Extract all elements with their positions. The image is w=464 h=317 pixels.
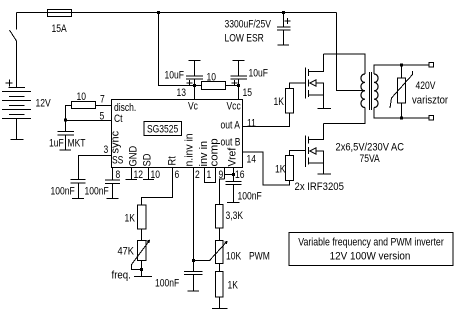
svg-text:1uF: 1uF [49, 138, 64, 150]
svg-text:10uF: 10uF [165, 70, 184, 82]
svg-text:sync: sync [110, 130, 122, 153]
node varistor top [400, 64, 403, 67]
svg-text:out B: out B [221, 137, 241, 149]
wire pin 7 [96, 105, 112, 107]
svg-text:8: 8 [116, 169, 121, 181]
svg-text:2x6,5V/230V AC: 2x6,5V/230V AC [336, 142, 404, 154]
wire 1K to 47K [141, 229, 143, 241]
svg-text:Vc: Vc [188, 101, 198, 113]
battery plus sign [6, 80, 13, 87]
svg-text:freq.: freq. [112, 270, 131, 282]
capacitor C 100nF (sync) [71, 180, 86, 199]
wire pin 1 to pin 9 loop [205, 168, 216, 183]
svg-text:9: 9 [219, 169, 224, 181]
resistor 1K (gate A) [286, 89, 294, 114]
resistor 1K (freq) [138, 205, 147, 229]
wire pin 6 Rt [142, 168, 173, 206]
node top rail to 3300uF [282, 11, 285, 14]
transistor Q2 IRF3205 bottom [305, 136, 307, 168]
svg-text:1K: 1K [274, 96, 285, 108]
svg-text:11: 11 [247, 118, 256, 130]
svg-text:n.inv in: n.inv in [183, 133, 195, 166]
wire pin 11 out A [243, 113, 290, 127]
svg-text:SD: SD [142, 154, 154, 167]
svg-text:Rt: Rt [167, 156, 179, 165]
battery BT1 12V [9, 87, 26, 89]
svg-text:100nF: 100nF [51, 186, 75, 198]
svg-text:MKT: MKT [68, 138, 86, 150]
svg-text:SS: SS [112, 155, 124, 167]
capacitor C 10uF left [186, 61, 203, 86]
capacitor C 100nF (pin2) [184, 272, 203, 292]
wire pin 5 and Ct node [66, 106, 112, 132]
SG3525 label box [144, 122, 182, 136]
wire pin 14 out B [243, 152, 290, 185]
IC U1 SG3525 body [112, 100, 243, 168]
svg-text:100nF: 100nF [85, 186, 109, 198]
info box [289, 233, 453, 266]
svg-text:Vref: Vref [226, 148, 238, 167]
capacitor C 100nF (Vref) [226, 182, 242, 203]
wire secondary top [374, 65, 429, 74]
ground pin 10 stub [143, 168, 154, 180]
svg-text:GND: GND [128, 146, 140, 167]
svg-text:100nF: 100nF [155, 278, 179, 290]
svg-text:2x IRF3205: 2x IRF3205 [295, 181, 345, 193]
terminal output bottom [429, 116, 434, 121]
svg-text:3,3K: 3,3K [226, 210, 244, 222]
svg-text:12V: 12V [36, 98, 52, 110]
svg-text:1K: 1K [275, 164, 286, 176]
wire 1K to gate A [290, 83, 306, 89]
transformer T1 primary winding [361, 74, 365, 108]
svg-text:13: 13 [177, 87, 187, 99]
svg-text:2: 2 [195, 169, 200, 181]
svg-text:12V 100W version: 12V 100W version [330, 251, 411, 263]
wire top rail [17, 12, 337, 14]
svg-text:PWM: PWM [249, 251, 270, 263]
svg-text:6: 6 [175, 169, 180, 181]
wire pin 3 sync [79, 156, 112, 180]
wire drain B to transformer bottom [324, 108, 366, 124]
capacitor C 10uF right [231, 61, 248, 86]
svg-text:16: 16 [235, 169, 245, 181]
pot 10K arrow [210, 241, 228, 261]
svg-text:75VA: 75VA [360, 153, 381, 165]
svg-text:LOW ESR: LOW ESR [225, 33, 264, 45]
switch S1 [16, 13, 18, 88]
transformer core [370, 72, 372, 110]
resistor 1K (gate B) [286, 156, 294, 181]
svg-text:out A: out A [221, 120, 241, 132]
svg-text:1K: 1K [125, 213, 136, 225]
transistor Q1 IRF3205 top [305, 68, 307, 99]
capacitor C 1uF MKT [58, 132, 75, 151]
plus sign 10uF left [187, 80, 193, 86]
wire pin 15 stub [238, 86, 240, 100]
capacitor C 100nF (soft start) [105, 180, 120, 199]
resistor 3,3K [216, 205, 224, 229]
wire 3,3K to pot [219, 228, 221, 241]
fuse 15A [48, 10, 72, 17]
svg-text:10: 10 [77, 91, 87, 103]
svg-text:10: 10 [207, 72, 217, 84]
wire wiper to pin 2 [194, 260, 211, 262]
svg-text:comp: comp [209, 138, 221, 166]
ground pin 12 stub [126, 168, 138, 180]
wire center tap [337, 13, 366, 91]
wire pin 13 stub [194, 86, 196, 100]
svg-text:420V: 420V [416, 80, 436, 92]
svg-text:7: 7 [100, 94, 105, 106]
svg-text:10uF: 10uF [249, 68, 268, 80]
wire drain A to transformer top [324, 54, 366, 74]
node Ct junction [64, 119, 67, 122]
node varistor bottom [400, 117, 403, 120]
svg-text:3: 3 [104, 144, 109, 156]
resistor 1K (divider) [216, 272, 224, 298]
svg-text:100nF: 100nF [238, 191, 262, 203]
node pin 16 junction [232, 173, 235, 176]
resistor 10 (discharge) [72, 102, 96, 109]
wire 1K to gate B [290, 151, 306, 156]
svg-text:15A: 15A [52, 23, 68, 35]
svg-text:12: 12 [134, 169, 143, 181]
node 47K bottom junction [140, 268, 143, 271]
svg-text:1K: 1K [228, 280, 239, 292]
capacitor C 3300uF/25V [277, 13, 291, 46]
svg-text:varisztor: varisztor [412, 95, 449, 107]
svg-text:3300uF/25V: 3300uF/25V [225, 19, 272, 31]
node top rail to Vc dropper [157, 11, 160, 14]
svg-text:Vcc: Vcc [227, 101, 241, 113]
svg-text:10K: 10K [226, 251, 242, 263]
svg-text:Ct: Ct [114, 113, 123, 125]
svg-text:Variable frequency and PWM inv: Variable frequency and PWM inverter [298, 237, 444, 249]
ground stub divider [212, 297, 228, 309]
svg-text:14: 14 [247, 154, 257, 166]
potentiometer 10K PWM [216, 241, 224, 264]
ground stub freq [134, 261, 152, 277]
node Vcc junction [237, 84, 240, 87]
terminal output top [429, 63, 434, 68]
resistor 10 (Vc-Vcc) [195, 85, 202, 87]
svg-text:15: 15 [243, 87, 253, 99]
svg-text:47K: 47K [118, 246, 135, 258]
wire pot to 1K [219, 264, 221, 272]
svg-text:10: 10 [151, 169, 161, 181]
svg-text:1: 1 [207, 169, 212, 181]
plus sign 10uF right [232, 80, 238, 86]
svg-text:5: 5 [100, 111, 105, 123]
plus sign 3300uF [285, 18, 291, 24]
node Vc junction [193, 84, 196, 87]
wire secondary bottom [374, 108, 429, 119]
transformer T1 secondary winding [374, 74, 378, 108]
wire Vc dropper [159, 13, 195, 86]
svg-text:SG3525: SG3525 [147, 124, 179, 136]
node pin 2 wiper junction [192, 259, 195, 262]
varistor RV1 420V [401, 65, 403, 78]
pot 47K arrow [132, 239, 151, 269]
wire pin 16 stub [233, 168, 235, 182]
wire pin 2 vertical [193, 168, 195, 261]
potentiometer 47K freq [138, 241, 147, 261]
wire pin 9 stub and branches [220, 168, 234, 205]
wire pin 8 stub [112, 168, 114, 181]
